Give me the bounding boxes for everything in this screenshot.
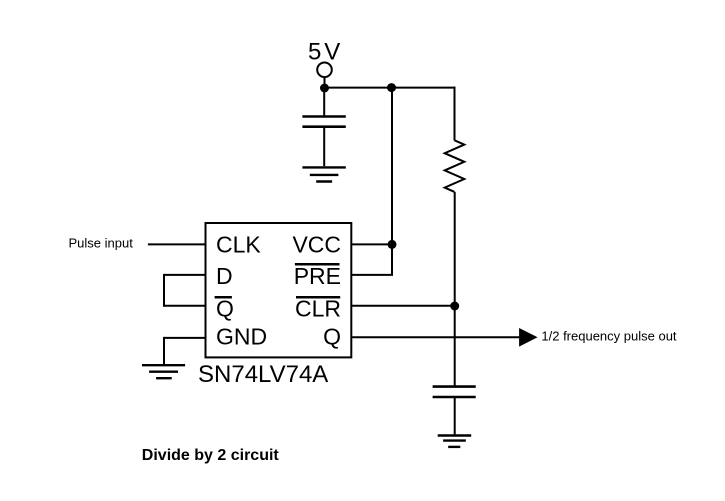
svg-text:D: D (216, 263, 233, 289)
junction dot node C (VCC pin) (388, 240, 397, 249)
ground (IC GND) (142, 365, 185, 378)
junction dot node A (bypass cap tap) (320, 84, 329, 93)
capacitor C2 (433, 387, 476, 397)
resistor R1 (445, 140, 465, 192)
ground (C2) (438, 436, 472, 447)
svg-text:Divide by 2 circuit: Divide by 2 circuit (142, 447, 280, 464)
wire bypass cap top lead (323, 88, 325, 117)
wire GND down lead (163, 337, 165, 364)
capacitor C1 (bypass) (302, 117, 345, 127)
svg-text:Q: Q (216, 295, 234, 321)
wire D feedback top (164, 274, 206, 276)
svg-text:CLK: CLK (216, 231, 261, 257)
svg-text:1/2 frequency pulse out: 1/2 frequency pulse out (541, 329, 677, 344)
power terminal circle (317, 63, 332, 78)
junction dot node B (VCC branch) (387, 83, 396, 92)
svg-text:SN74LV74A: SN74LV74A (198, 361, 328, 388)
wire PRE pin (351, 274, 393, 276)
wire C2 bottom lead (454, 397, 456, 434)
wire VCC pin (351, 243, 392, 245)
svg-text:VCC: VCC (292, 231, 341, 257)
svg-text:Pulse input: Pulse input (69, 236, 134, 251)
wire resistor bottom to CLR node (454, 192, 456, 306)
wire feedback vertical (163, 274, 165, 307)
wire Q output (351, 336, 520, 338)
ground (bypass cap) (302, 167, 345, 181)
wire terminal stub (324, 77, 326, 88)
pin label PRE with overline (294, 263, 341, 289)
svg-text:V: V (324, 39, 340, 66)
pin label CLR with overline (295, 295, 341, 321)
wire C1 bottom lead (323, 127, 325, 167)
label 5V supply (308, 39, 340, 66)
wire rail corner down to resistor (454, 87, 456, 141)
svg-text:Q: Q (323, 324, 341, 350)
wire VCC branch vertical (391, 88, 393, 275)
svg-text:GND: GND (216, 324, 267, 350)
wire CLR pin (351, 305, 454, 307)
svg-text:CLR: CLR (295, 295, 341, 321)
svg-text:PRE: PRE (294, 263, 341, 289)
svg-text:5: 5 (308, 39, 321, 66)
wire GND pin (164, 337, 206, 339)
pin label Q-bar (215, 295, 234, 321)
wire 5V rail (325, 87, 456, 89)
junction dot node D (CLR / RC node) (450, 302, 459, 311)
wire RC node down to C2 (454, 306, 456, 387)
IC U1 box (206, 223, 352, 357)
arrowhead output (519, 328, 538, 347)
wire Q-bar feedback bottom (164, 305, 206, 307)
wire CLK input (148, 243, 206, 245)
